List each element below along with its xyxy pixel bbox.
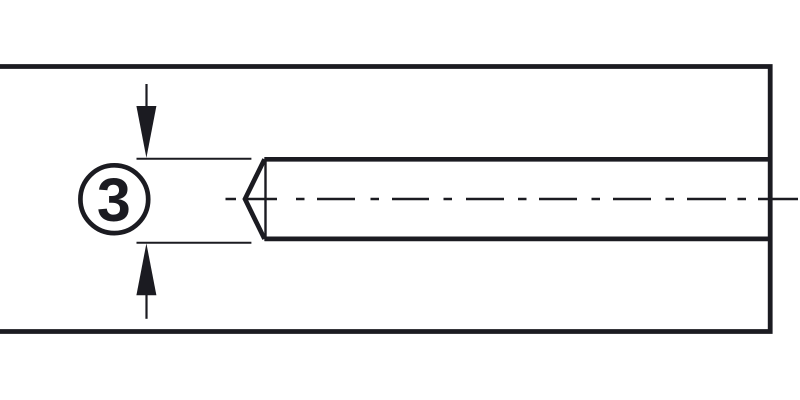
bore bottom wall <box>265 237 771 242</box>
drill point shoulder line <box>264 157 266 241</box>
bore top wall <box>265 157 771 162</box>
centerline (dash-dot axis) <box>226 198 799 201</box>
callout balloon circle <box>80 165 148 233</box>
drill point tip <box>245 159 265 239</box>
svg-text:3: 3 <box>97 166 131 234</box>
bottom dimension arrow <box>136 243 156 318</box>
top dimension arrow <box>136 84 156 158</box>
bottom extension line <box>137 242 252 244</box>
top extension line <box>137 158 252 160</box>
panel outline (workpiece section) <box>0 67 770 332</box>
